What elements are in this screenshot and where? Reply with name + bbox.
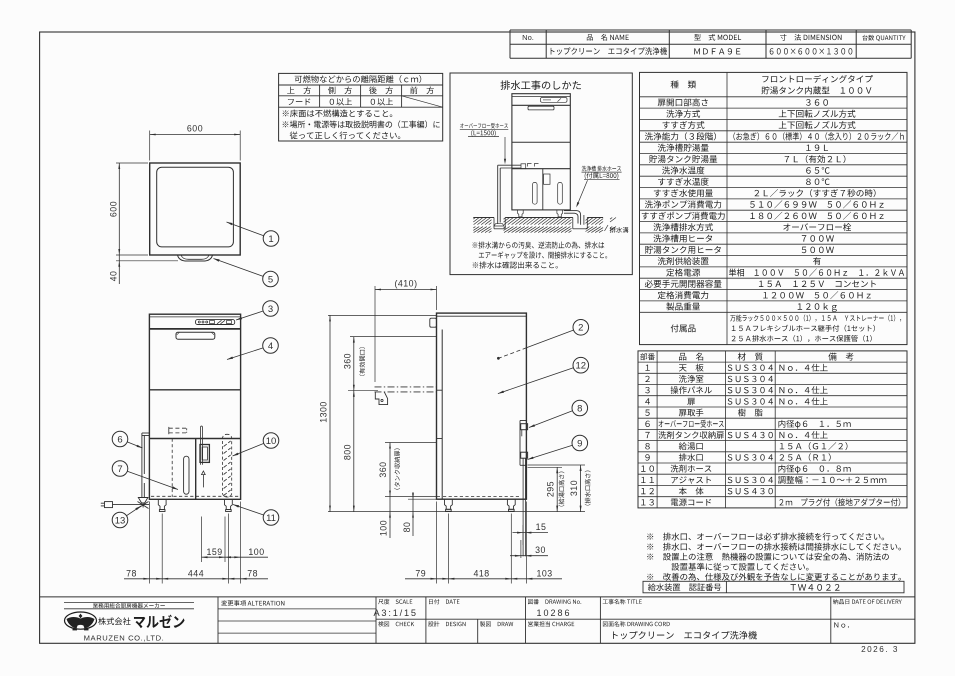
svg-text:40: 40	[108, 271, 118, 282]
svg-text:4: 4	[268, 341, 273, 352]
svg-text:444: 444	[188, 569, 204, 579]
svg-text:8: 8	[577, 403, 582, 414]
svg-text:418: 418	[474, 569, 490, 579]
svg-text:295: 295	[545, 481, 555, 497]
svg-text:(410): (410)	[394, 278, 417, 288]
svg-text:6: 6	[117, 434, 122, 445]
svg-text:1300: 1300	[319, 401, 329, 423]
svg-text:MARUZEN CO.,LTD.: MARUZEN CO.,LTD.	[84, 633, 165, 642]
svg-text:7: 7	[117, 464, 122, 475]
svg-text:360: 360	[378, 461, 388, 477]
svg-text:13: 13	[115, 515, 126, 526]
svg-text:No.: No.	[522, 33, 534, 42]
svg-text:79: 79	[415, 569, 426, 579]
svg-text:10: 10	[266, 436, 277, 447]
svg-text:A3:1/15: A3:1/15	[374, 608, 418, 618]
svg-text:78: 78	[247, 569, 258, 579]
svg-text:800: 800	[343, 444, 353, 460]
svg-text:10286: 10286	[536, 608, 571, 618]
svg-text:600: 600	[108, 201, 118, 217]
svg-text:100: 100	[379, 520, 389, 536]
svg-text:600: 600	[187, 124, 203, 134]
svg-text:310: 310	[569, 480, 579, 496]
svg-text:100: 100	[248, 547, 264, 557]
svg-text:12: 12	[576, 361, 587, 372]
svg-text:2026. 3: 2026. 3	[861, 645, 899, 654]
svg-text:30: 30	[535, 545, 546, 555]
svg-text:3: 3	[268, 304, 273, 315]
svg-text:1: 1	[268, 234, 273, 245]
svg-text:5: 5	[268, 274, 273, 285]
svg-text:103: 103	[537, 569, 553, 579]
svg-text:11: 11	[266, 513, 276, 524]
svg-text:78: 78	[126, 569, 137, 579]
svg-text:9: 9	[577, 438, 582, 449]
svg-text:159: 159	[207, 547, 223, 557]
svg-text:360: 360	[343, 353, 353, 369]
svg-text:15: 15	[536, 522, 547, 532]
svg-text:80: 80	[402, 522, 412, 533]
svg-text:2: 2	[578, 323, 583, 334]
